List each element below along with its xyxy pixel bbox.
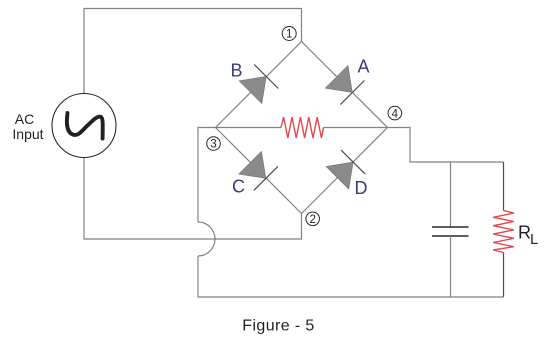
- wire: below hop down to bottom rail and right along bottom: [198, 256, 504, 297]
- wire: node 3 to resistor left lead: [216, 127, 282, 129]
- wire: top loop from AC source to node 1: [84, 9, 302, 94]
- svg-text:Figure - 5: Figure - 5: [242, 318, 314, 335]
- resistor R (middle, red zigzag): [281, 117, 324, 138]
- svg-text:D: D: [355, 178, 368, 198]
- diode B (node 3 to node 1): [239, 64, 279, 104]
- wire: resistor right lead to node 4: [324, 127, 388, 129]
- AC source sine squiggle: [67, 113, 103, 139]
- capacitor C1: top lead: [450, 162, 452, 227]
- svg-text:Input: Input: [12, 126, 43, 142]
- diode C (node 3 to node 2): [238, 151, 278, 191]
- svg-text:L: L: [530, 231, 538, 248]
- svg-text:B: B: [230, 61, 242, 81]
- wire: diamond edge node 3 to node 1: [216, 42, 302, 128]
- svg-text:2: 2: [309, 214, 315, 226]
- svg-text:1: 1: [286, 29, 292, 41]
- wire: diamond edge node 3 to node 2: [216, 128, 302, 214]
- svg-text:3: 3: [210, 139, 216, 151]
- svg-text:A: A: [357, 57, 369, 77]
- wire: diamond edge node 1 to node 4: [302, 42, 388, 128]
- diode A (node 1 to node 4): [325, 65, 365, 105]
- capacitor C1: plates: [432, 226, 469, 228]
- capacitor C1: bottom lead: [450, 236, 452, 297]
- svg-text:C: C: [232, 177, 245, 197]
- wire: node 4 right, down, to top right rail: [388, 128, 504, 163]
- node 3: [207, 137, 221, 151]
- resistor RL: bottom lead: [503, 253, 505, 298]
- AC source V1 (circle): [52, 94, 116, 158]
- resistor RL: top lead: [503, 162, 505, 211]
- resistor RL: red zigzag: [493, 211, 514, 253]
- diode D (node 2 to node 4): [325, 150, 365, 190]
- svg-text:4: 4: [392, 108, 399, 120]
- svg-text:AC: AC: [15, 111, 34, 127]
- node 1: [282, 27, 296, 41]
- wire: diamond edge node 2 to node 4: [302, 128, 388, 214]
- node 4: [388, 106, 402, 120]
- wire: node 3 left, down to bottom rail (upper part, before hop): [198, 128, 216, 223]
- wire: AC source bottom down and right to node 2 drop: [84, 158, 302, 240]
- node 2: [306, 212, 320, 226]
- wire hop: semicircle over horizontal wire at x=198: [198, 222, 215, 256]
